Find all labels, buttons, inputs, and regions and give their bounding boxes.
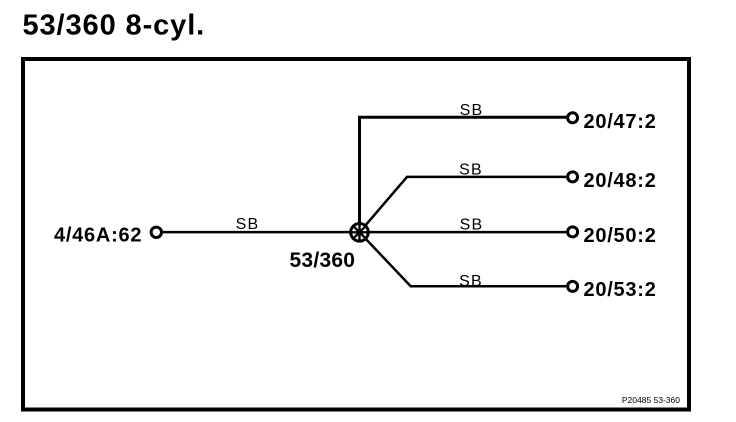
- terminal 20/47:2: [568, 113, 578, 123]
- terminal 20/48:2: [568, 172, 578, 182]
- wire branch 3 to 20/50:2: [360, 231, 567, 234]
- svg-text:SB: SB: [460, 102, 484, 119]
- svg-text:SB: SB: [459, 162, 483, 179]
- wire from 4/46A:62 to splice 53/360: [163, 231, 360, 234]
- svg-text:P20485 53-360: P20485 53-360: [622, 395, 680, 405]
- svg-text:SB: SB: [236, 216, 260, 233]
- svg-text:53/360 8-cyl.: 53/360 8-cyl.: [23, 10, 206, 42]
- svg-text:20/53:2: 20/53:2: [584, 279, 657, 301]
- svg-text:20/47:2: 20/47:2: [584, 111, 657, 133]
- wire branch 1 to 20/47:2: [360, 117, 567, 232]
- svg-text:4/46A:62: 4/46A:62: [54, 225, 142, 247]
- diagram border frame: [23, 59, 689, 410]
- terminal 20/53:2: [568, 281, 578, 291]
- svg-text:20/50:2: 20/50:2: [584, 225, 657, 247]
- wire branch 4 to 20/53:2: [360, 232, 567, 286]
- svg-text:53/360: 53/360: [290, 249, 356, 272]
- terminal 4/46A:62: [151, 227, 161, 237]
- splice junction 53/360 symbol: [351, 224, 369, 242]
- svg-text:SB: SB: [460, 217, 484, 234]
- svg-text:20/48:2: 20/48:2: [584, 170, 657, 192]
- wire branch 2 to 20/48:2: [360, 177, 567, 232]
- svg-text:SB: SB: [459, 273, 483, 290]
- terminal 20/50:2: [568, 227, 578, 237]
